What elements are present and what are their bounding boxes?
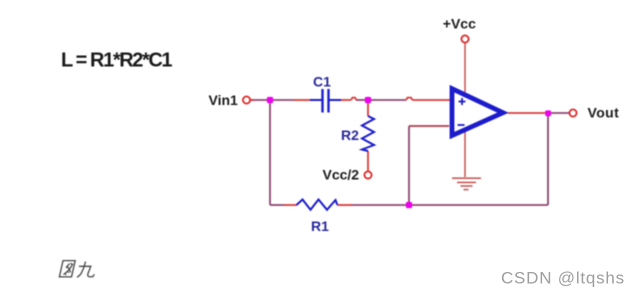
svg-text:R2: R2 — [341, 127, 359, 143]
svg-text:R1: R1 — [311, 218, 329, 234]
svg-text:Vcc/2: Vcc/2 — [323, 167, 360, 183]
svg-text:Vin1: Vin1 — [209, 92, 239, 108]
svg-text:L = R1*R2*C1: L = R1*R2*C1 — [61, 50, 172, 72]
svg-text:CSDN @ltqshs: CSDN @ltqshs — [501, 269, 625, 288]
svg-text:+Vcc: +Vcc — [443, 16, 476, 32]
svg-text:C1: C1 — [313, 74, 331, 90]
svg-text:Vout: Vout — [588, 105, 620, 121]
